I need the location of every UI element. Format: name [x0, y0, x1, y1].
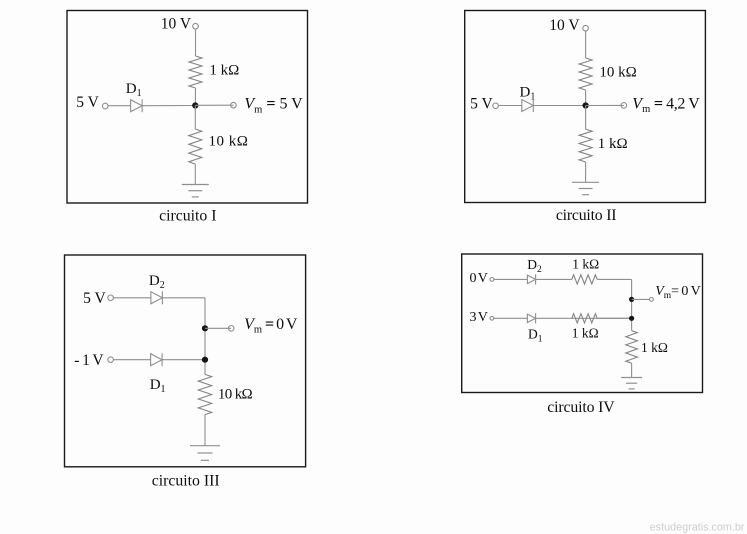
- svg-text:circuito IV: circuito IV: [547, 399, 615, 416]
- svg-text:Vm = 4,2 V: Vm = 4,2 V: [632, 95, 700, 115]
- svg-text:3 V: 3 V: [470, 310, 488, 325]
- svg-text:1 kΩ: 1 kΩ: [598, 136, 628, 152]
- svg-text:10 kΩ: 10 kΩ: [209, 134, 249, 150]
- svg-text:1 kΩ: 1 kΩ: [641, 340, 668, 355]
- svg-text:5 V: 5 V: [470, 96, 493, 113]
- svg-text:estudegratis.com.br: estudegratis.com.br: [650, 522, 745, 534]
- svg-text:10 kΩ: 10 kΩ: [218, 386, 253, 402]
- svg-text:Vm= 0 V: Vm= 0 V: [655, 284, 700, 301]
- svg-text:circuito III: circuito III: [152, 472, 220, 489]
- svg-text:0 V: 0 V: [470, 271, 488, 286]
- svg-text:5 V: 5 V: [83, 290, 106, 307]
- svg-text:10 V: 10 V: [161, 16, 192, 33]
- svg-text:1 kΩ: 1 kΩ: [209, 62, 239, 78]
- svg-text:D2: D2: [527, 257, 542, 275]
- svg-text:D1: D1: [150, 377, 166, 395]
- svg-text:D1: D1: [528, 326, 543, 344]
- svg-text:1 kΩ: 1 kΩ: [572, 325, 599, 340]
- svg-text:1 kΩ: 1 kΩ: [572, 256, 599, 271]
- svg-text:D2: D2: [149, 273, 165, 291]
- svg-text:circuito II: circuito II: [556, 207, 617, 224]
- svg-text:Vm = 0 V: Vm = 0 V: [244, 316, 298, 336]
- svg-text:5 V: 5 V: [76, 94, 99, 111]
- svg-text:- 1 V: - 1 V: [74, 352, 104, 369]
- svg-text:10 kΩ: 10 kΩ: [599, 65, 636, 81]
- svg-text:circuito I: circuito I: [159, 207, 216, 224]
- svg-text:D1: D1: [126, 81, 142, 99]
- svg-text:10 V: 10 V: [549, 17, 580, 34]
- svg-text:Vm = 5 V: Vm = 5 V: [244, 96, 303, 116]
